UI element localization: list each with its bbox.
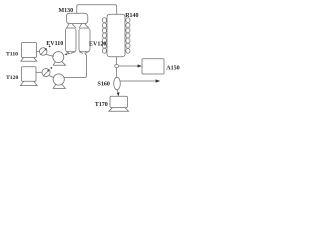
- svg-text:R140: R140: [125, 13, 138, 19]
- wire S160 to T170: [117, 90, 118, 93]
- svg-text:T170: T170: [95, 102, 108, 108]
- coil right R140: [126, 18, 130, 54]
- coil left R140: [102, 18, 106, 54]
- valve V1: [39, 46, 50, 56]
- wire EV110 to pump P1: [65, 53, 70, 56]
- valve V2: [42, 67, 52, 77]
- arrow S160 right: [120, 79, 160, 82]
- stand T170: [109, 108, 129, 112]
- pipe pump P2 to EV120: [64, 54, 86, 78]
- wire M130 top to R140 top: [77, 5, 117, 15]
- tank T170: [110, 96, 127, 107]
- svg-text:T120: T120: [6, 75, 18, 81]
- svg-text:EV120: EV120: [89, 42, 106, 48]
- arrowhead at pump P1: [64, 53, 67, 55]
- separator S160: [114, 77, 121, 90]
- tank T110: [22, 43, 37, 58]
- wire T120 to valve V2: [36, 71, 42, 73]
- absorber A150: [142, 59, 164, 74]
- svg-text:S160: S160: [98, 82, 110, 88]
- wire T110 to valve V1: [37, 51, 40, 53]
- neck EV110 bottom: [66, 52, 75, 54]
- wire R140 bottom to node: [116, 57, 118, 64]
- funnel M130 to EV110: [67, 24, 76, 28]
- arrow node to A150: [118, 64, 141, 67]
- svg-text:A150: A150: [166, 66, 179, 72]
- mixer M130: [66, 13, 87, 23]
- node junction: [115, 64, 119, 68]
- svg-text:EV110: EV110: [46, 41, 63, 47]
- svg-text:T110: T110: [6, 51, 18, 57]
- evaporator EV110: [66, 28, 77, 52]
- reactor R140: [107, 14, 125, 57]
- wire valve V1 to pump P1: [46, 54, 54, 56]
- arrowhead into T170: [117, 92, 120, 96]
- wire valve V2 to pump P2: [49, 76, 54, 78]
- stand T120: [20, 81, 37, 85]
- pump P1: [53, 52, 66, 66]
- neck EV120 bottom: [79, 52, 88, 54]
- tank T120: [22, 67, 37, 82]
- wire node to S160: [116, 68, 118, 78]
- funnel M130 to EV120: [79, 24, 88, 28]
- svg-text:M130: M130: [59, 8, 74, 14]
- pump P2: [53, 74, 65, 89]
- evaporator EV120: [79, 28, 90, 52]
- stand T110: [21, 58, 37, 62]
